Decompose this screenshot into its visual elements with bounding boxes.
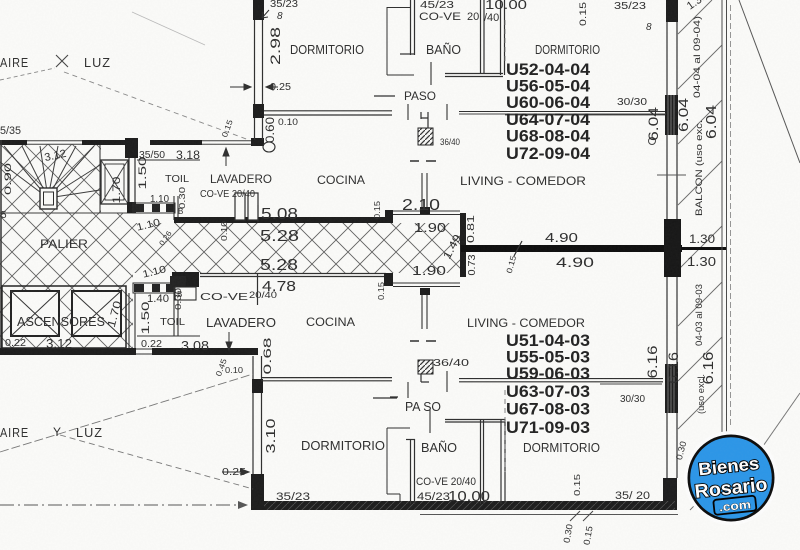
elevator outer box — [2, 286, 126, 348]
bottom exterior wall — [251, 501, 675, 510]
stairs outline — [0, 145, 133, 213]
arrow 0.25 bottom — [222, 469, 249, 475]
toil top walls — [137, 160, 200, 220]
closet top — [387, 7, 414, 75]
elevator cabin 1 — [11, 291, 59, 336]
toil bottom door sill — [133, 283, 175, 293]
dorm BL top wall — [261, 378, 392, 381]
logo blue disc — [690, 437, 772, 519]
shaft box right of stairs — [101, 160, 128, 204]
dash left of paso top — [374, 95, 395, 97]
logo text bienes — [691, 452, 770, 516]
living stub bottom — [420, 288, 430, 295]
stairs center newel box — [40, 188, 57, 209]
logo black ring — [688, 435, 775, 522]
dorm TR bottom wall — [459, 112, 667, 115]
x mark top — [56, 55, 68, 67]
paso stubs top — [408, 104, 447, 120]
top wall opening lines — [27, 141, 251, 145]
vertical tick above paso — [430, 62, 432, 85]
top exterior wall segments — [0, 138, 264, 146]
arrow up lavadero top — [223, 148, 229, 166]
diagonal bottom right — [745, 393, 800, 472]
logo .com box — [713, 496, 756, 515]
extension line x505 top — [504, 20, 506, 62]
heater bottom — [418, 360, 433, 374]
diagonal top right — [739, 0, 800, 163]
toil top door sill — [133, 203, 175, 213]
sight line A bottom left — [0, 374, 253, 452]
logo white halo — [684, 431, 778, 525]
toil bottom walls — [129, 287, 200, 348]
corridor wall jog top — [385, 210, 393, 223]
party wall center — [461, 245, 682, 252]
tick 4.78 — [257, 274, 259, 305]
door swing mark — [263, 142, 275, 152]
balcony outer edge — [722, 0, 727, 510]
dorm BR top wall — [459, 379, 663, 382]
unit numbers top — [506, 61, 591, 437]
paso stubs bottom — [408, 371, 447, 398]
column top-left — [125, 138, 138, 158]
living stub top — [422, 173, 427, 207]
hatch palier area — [0, 213, 133, 348]
corridor top wall — [174, 217, 390, 223]
arrow down lavadero bottom — [226, 332, 232, 350]
faint mark top — [132, 12, 205, 45]
elevator cabin 2 — [72, 291, 121, 336]
sight line top left dashed — [64, 72, 249, 140]
left exterior wall line — [0, 140, 2, 348]
balcony inner wall — [666, 0, 678, 22]
dorm TL bottom wall — [264, 111, 392, 115]
bottom-left thick wall — [0, 348, 136, 355]
balcony hatch lines — [678, 0, 722, 510]
hatch corridor band — [133, 223, 460, 273]
banio top walls — [400, 0, 505, 77]
dash dot property line bottom — [0, 504, 244, 506]
vertical tick below paso bottom — [429, 410, 431, 433]
dashes top — [410, 160, 436, 162]
heater top — [418, 128, 433, 145]
lavadero window top — [235, 193, 245, 220]
dimension line dorm TR — [459, 113, 666, 115]
closet bottom — [387, 428, 410, 501]
dorm BL left wall — [252, 379, 263, 393]
fixture box bottom toil — [175, 287, 196, 300]
cocina living divider wall — [460, 213, 466, 277]
banio bottom walls — [406, 419, 505, 504]
arrow mark 8 top left — [262, 10, 269, 18]
stairs radial treads — [0, 146, 100, 198]
corridor bottom wall — [172, 272, 199, 287]
hatch stairs area — [0, 144, 101, 213]
property line right vertical — [730, 5, 732, 428]
balcony wall window blocks — [663, 95, 681, 510]
dashes bottom — [410, 340, 436, 342]
dimension tick balcony y175 — [657, 174, 686, 176]
extension line x505 bottom — [504, 390, 506, 472]
arrow 0.25 top — [230, 84, 251, 90]
wall right of shaft — [129, 158, 135, 213]
corridor wall jog bottom — [384, 273, 393, 286]
dorm TL left wall — [253, 0, 264, 20]
dimension line 30/30 bottom — [600, 383, 662, 385]
dash left of paso bottom — [373, 397, 397, 399]
tick 5.08 — [257, 205, 259, 222]
sight line B bottom left dashed — [60, 435, 253, 489]
